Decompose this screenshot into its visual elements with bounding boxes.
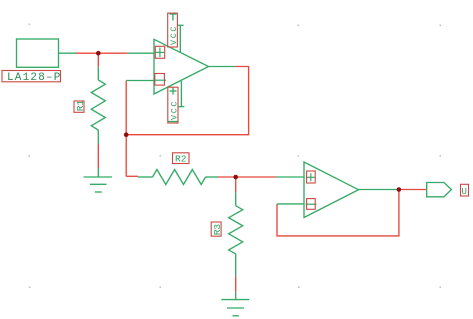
svg-text:R2: R2 <box>175 154 187 165</box>
svg-text:VCC: VCC <box>170 100 180 120</box>
svg-text:VCC: VCC <box>169 25 179 45</box>
svg-text:R3: R3 <box>212 224 223 236</box>
svg-text:U: U <box>462 187 467 197</box>
svg-text:R1: R1 <box>75 100 86 112</box>
svg-text:LA128–P: LA128–P <box>7 72 62 84</box>
